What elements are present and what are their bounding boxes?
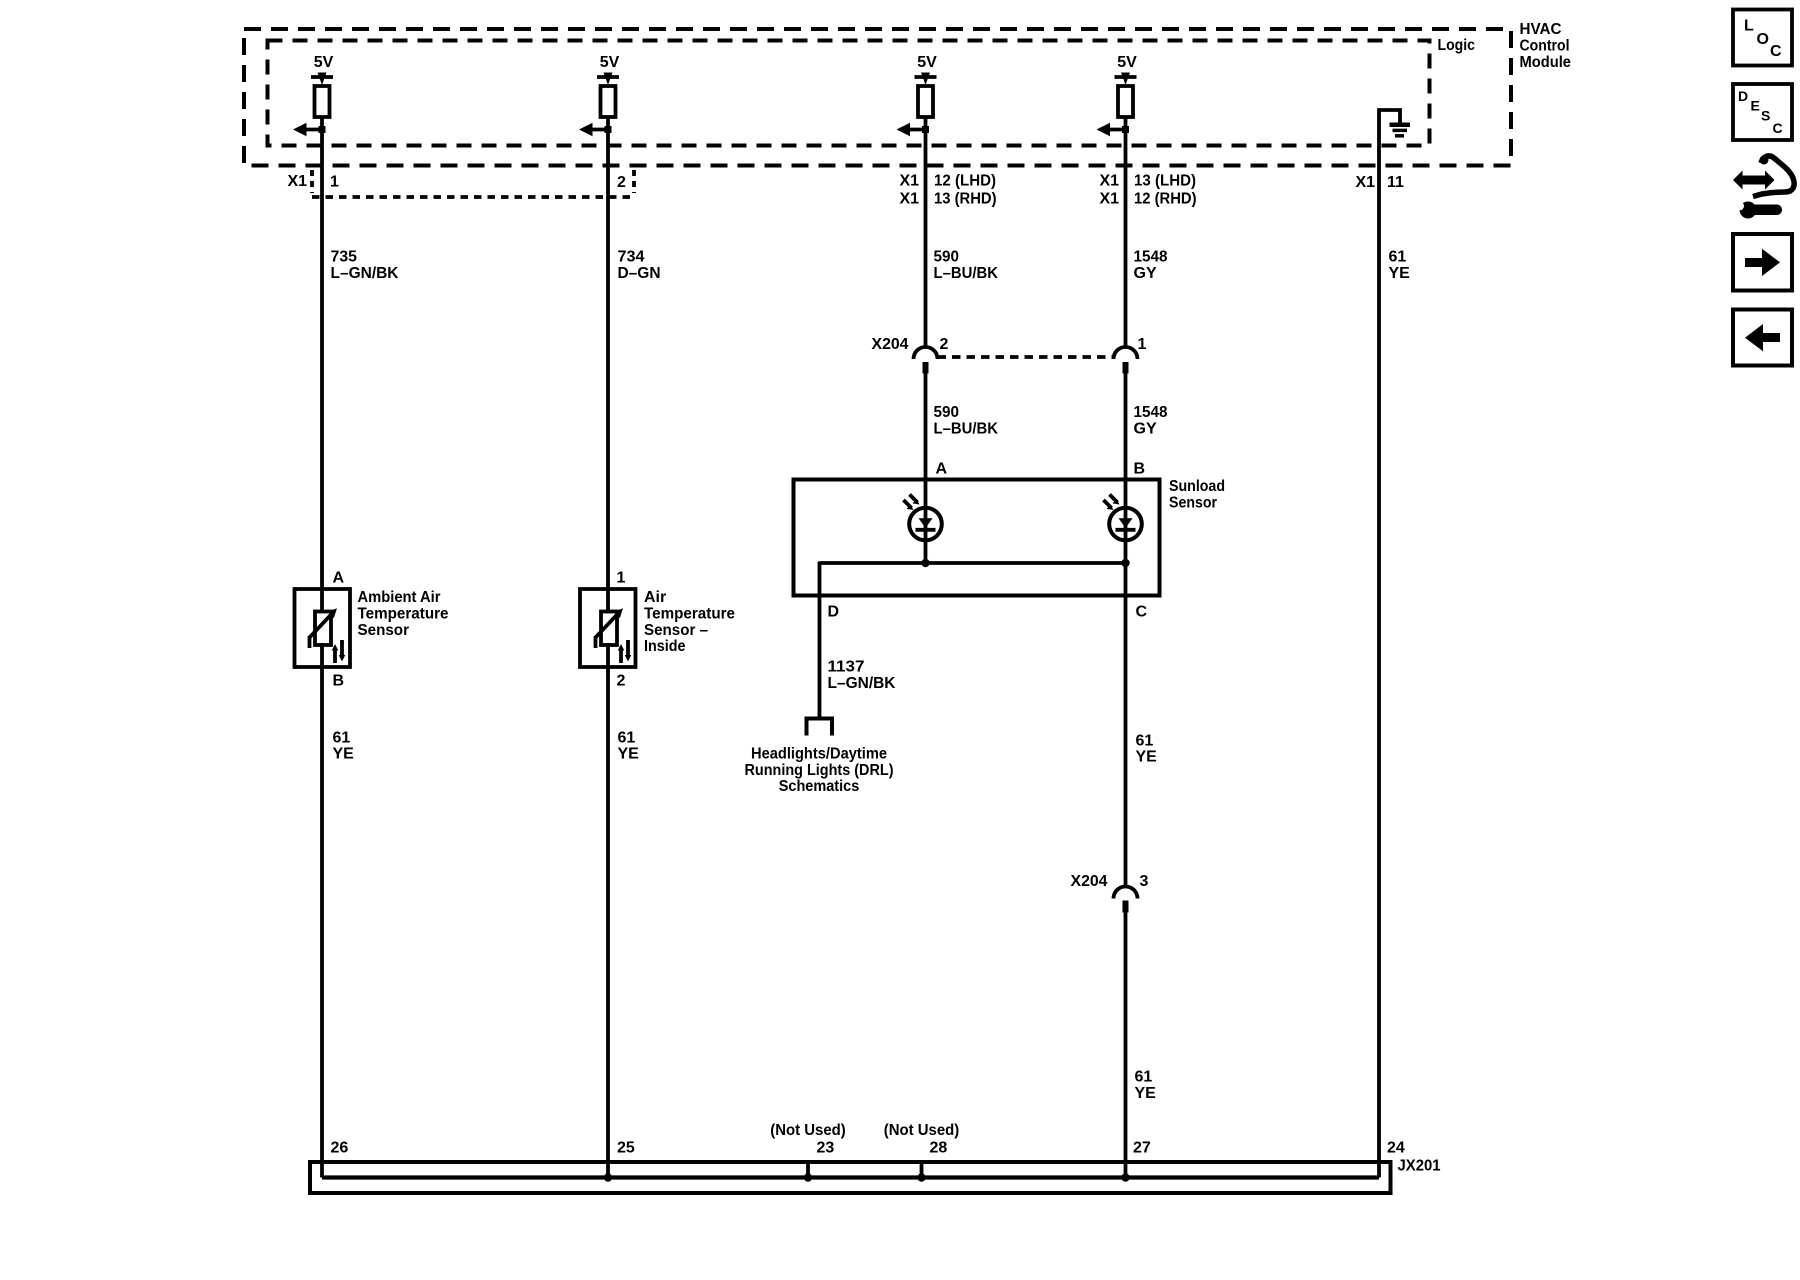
wire 1548 GY label (upper) bbox=[1134, 248, 1168, 282]
wire branch 2 to junction block bbox=[606, 643, 610, 1178]
svg-text:Control: Control bbox=[1520, 38, 1570, 55]
svg-text:L–BU/BK: L–BU/BK bbox=[934, 421, 999, 438]
wire branch 3 upper bbox=[924, 117, 928, 349]
svg-text:E: E bbox=[1751, 98, 1760, 114]
svg-text:23: 23 bbox=[817, 1140, 835, 1157]
svg-text:GY: GY bbox=[1134, 265, 1157, 282]
junction block JX201 outer box bbox=[310, 1162, 1391, 1193]
svg-text:61: 61 bbox=[1135, 1068, 1153, 1085]
svg-text:5V: 5V bbox=[1117, 54, 1137, 71]
signal arrow (branch 2) bbox=[579, 123, 612, 137]
svg-text:1137: 1137 bbox=[828, 659, 865, 676]
svg-text:YE: YE bbox=[1136, 749, 1158, 766]
svg-text:13 (RHD): 13 (RHD) bbox=[934, 191, 997, 208]
svg-text:12 (LHD): 12 (LHD) bbox=[934, 173, 996, 190]
svg-text:590: 590 bbox=[934, 404, 960, 421]
HVAC Control Module label bbox=[1520, 21, 1572, 71]
photodiode 1 (sunload A) bbox=[904, 495, 942, 541]
svg-text:C: C bbox=[1770, 43, 1782, 60]
icon LOC box bbox=[1733, 10, 1792, 66]
air temperature sensor inside label bbox=[644, 589, 735, 655]
svg-text:3: 3 bbox=[1140, 873, 1149, 890]
5V supply symbol (branch 1) bbox=[311, 73, 333, 86]
junction dot photodiode 1 bbox=[921, 559, 929, 567]
HVAC Control Module outer dashed box bbox=[244, 29, 1511, 166]
svg-text:61: 61 bbox=[333, 729, 351, 746]
wire branch 4 lower bbox=[1124, 371, 1128, 887]
wire 61 YE label (pin C) bbox=[1136, 732, 1158, 765]
resistor (branch 3) bbox=[918, 86, 933, 117]
svg-text:X1: X1 bbox=[1100, 191, 1120, 208]
stub pin 28 bbox=[920, 1162, 924, 1178]
ambient air temperature sensor box bbox=[295, 589, 351, 667]
svg-text:Sunload: Sunload bbox=[1169, 478, 1225, 495]
svg-text:L: L bbox=[1744, 18, 1754, 35]
junction dot photodiode 2 bbox=[1121, 559, 1129, 567]
svg-text:X204: X204 bbox=[872, 336, 909, 353]
resistor (branch 1) bbox=[315, 86, 330, 117]
icon DESC box bbox=[1733, 84, 1792, 140]
svg-text:12 (RHD): 12 (RHD) bbox=[1134, 191, 1197, 208]
wire 1548 GY label (lower) bbox=[1134, 404, 1168, 438]
svg-text:B: B bbox=[333, 673, 345, 690]
pin 23 not used label bbox=[770, 1122, 846, 1157]
wire branch 2 upper bbox=[606, 117, 610, 612]
5V supply symbol (branch 2) bbox=[597, 73, 619, 86]
wire 590 L-BU/BK label (upper) bbox=[934, 248, 999, 282]
svg-text:YE: YE bbox=[333, 746, 355, 763]
off-page connector to DRL schematics bbox=[805, 717, 835, 736]
ambient air temperature sensor label bbox=[358, 589, 449, 639]
svg-text:5V: 5V bbox=[600, 54, 620, 71]
svg-text:D: D bbox=[828, 604, 840, 621]
svg-text:X1: X1 bbox=[1100, 173, 1120, 190]
5V supply symbol (branch 3) bbox=[915, 73, 937, 86]
svg-text:O: O bbox=[1757, 31, 1769, 48]
svg-text:26: 26 bbox=[331, 1140, 349, 1157]
svg-text:Air: Air bbox=[644, 589, 666, 606]
svg-text:C: C bbox=[1136, 604, 1148, 621]
svg-text:YE: YE bbox=[1389, 265, 1411, 282]
svg-text:S: S bbox=[1761, 108, 1770, 124]
connector X1 pins 1-2 dotted box bbox=[312, 170, 634, 197]
photodiode 2 (sunload B) bbox=[1104, 495, 1142, 541]
wire branch 1 upper bbox=[320, 117, 324, 612]
connector X1 pin 1 label bbox=[288, 173, 340, 191]
wire 61 YE label (branch 2) bbox=[618, 729, 640, 762]
svg-text:2: 2 bbox=[617, 673, 626, 690]
icon back arrow box bbox=[1733, 310, 1792, 366]
svg-text:61: 61 bbox=[1136, 732, 1154, 749]
wire branch 3 lower bbox=[924, 371, 928, 563]
svg-text:1548: 1548 bbox=[1134, 404, 1168, 421]
svg-text:1548: 1548 bbox=[1134, 248, 1168, 265]
svg-text:YE: YE bbox=[618, 746, 640, 763]
icon forward arrow box bbox=[1733, 234, 1792, 291]
wire 61 YE label (branch 4 bottom) bbox=[1135, 1068, 1157, 1101]
resistor (branch 4) bbox=[1118, 86, 1133, 117]
wire 1137 (pin D) bbox=[818, 562, 822, 719]
svg-text:Sensor: Sensor bbox=[1169, 495, 1217, 512]
connector X204 pin 1 bbox=[1114, 347, 1138, 374]
connector X1 pin 13/12 labels (branch 4) bbox=[1100, 173, 1197, 208]
signal arrow (branch 4) bbox=[1097, 123, 1130, 137]
svg-text:Temperature: Temperature bbox=[358, 605, 449, 622]
svg-text:D: D bbox=[1738, 88, 1748, 104]
svg-text:A: A bbox=[333, 570, 345, 587]
svg-text:590: 590 bbox=[934, 248, 960, 265]
svg-text:2: 2 bbox=[617, 174, 626, 191]
pin 28 not used label bbox=[884, 1122, 960, 1157]
thermistor (inside sensor) bbox=[596, 608, 632, 663]
wire 734 D-GN label bbox=[618, 248, 661, 282]
wire 735 L-GN/BK label bbox=[331, 248, 399, 282]
thermistor (ambient sensor) bbox=[310, 608, 346, 663]
svg-text:A: A bbox=[936, 461, 948, 478]
svg-text:2: 2 bbox=[940, 336, 949, 353]
stub pin 23 bbox=[806, 1162, 810, 1178]
wire branch 1 to junction block bbox=[320, 643, 324, 1178]
svg-text:L–GN/BK: L–GN/BK bbox=[331, 265, 399, 282]
svg-text:28: 28 bbox=[930, 1140, 948, 1157]
svg-text:734: 734 bbox=[618, 248, 645, 265]
5V supply symbol (branch 4) bbox=[1115, 73, 1137, 86]
sunload sensor box bbox=[794, 480, 1160, 596]
wire 61 YE label (branch 1) bbox=[333, 729, 355, 762]
svg-text:5V: 5V bbox=[917, 54, 937, 71]
svg-text:24: 24 bbox=[1387, 1140, 1405, 1157]
svg-text:61: 61 bbox=[618, 729, 636, 746]
svg-text:JX201: JX201 bbox=[1398, 1158, 1441, 1175]
svg-text:L–GN/BK: L–GN/BK bbox=[828, 675, 896, 692]
svg-text:B: B bbox=[1134, 461, 1146, 478]
svg-text:Running Lights (DRL): Running Lights (DRL) bbox=[745, 762, 894, 779]
svg-text:Inside: Inside bbox=[644, 638, 686, 655]
resistor (branch 2) bbox=[601, 86, 616, 117]
connector X204 pin 3 label bbox=[1071, 873, 1149, 890]
svg-text:C: C bbox=[1773, 120, 1783, 136]
svg-text:Sensor –: Sensor – bbox=[644, 622, 708, 639]
wire 1137 L-GN/BK label bbox=[828, 659, 896, 693]
junction dot pin 28 bbox=[917, 1173, 925, 1181]
junction dot pin 27 bbox=[1121, 1173, 1129, 1181]
connector X1 pin 12/13 labels (branch 3) bbox=[900, 173, 997, 208]
svg-text:Module: Module bbox=[1520, 54, 1572, 71]
junction block bus wire bbox=[322, 1175, 1379, 1179]
svg-text:D–GN: D–GN bbox=[618, 265, 661, 282]
svg-text:27: 27 bbox=[1133, 1140, 1151, 1157]
svg-text:X1: X1 bbox=[288, 173, 308, 190]
sunload sensor label bbox=[1169, 478, 1225, 512]
junction dot pin 25 bbox=[604, 1173, 612, 1181]
connector X204 body dashed link bbox=[938, 355, 1114, 359]
svg-text:X204: X204 bbox=[1071, 873, 1108, 890]
wire 590 L-BU/BK label (lower) bbox=[934, 404, 999, 438]
air temperature sensor inside box bbox=[580, 589, 636, 667]
svg-text:X1: X1 bbox=[1356, 174, 1376, 191]
svg-text:735: 735 bbox=[331, 248, 358, 265]
svg-text:13 (LHD): 13 (LHD) bbox=[1134, 173, 1196, 190]
svg-text:25: 25 bbox=[617, 1140, 635, 1157]
svg-text:Logic: Logic bbox=[1438, 37, 1476, 54]
svg-text:(Not Used): (Not Used) bbox=[884, 1122, 960, 1139]
svg-text:Ambient Air: Ambient Air bbox=[358, 589, 441, 606]
junction dot pin 23 bbox=[804, 1173, 812, 1181]
wire 61 YE label (right branch) bbox=[1389, 248, 1411, 282]
svg-text:Sensor: Sensor bbox=[358, 622, 410, 639]
svg-text:5V: 5V bbox=[314, 54, 334, 71]
wire branch 4 upper bbox=[1124, 117, 1128, 349]
wire branch 4 to junction block bbox=[1124, 911, 1128, 1178]
svg-text:Temperature: Temperature bbox=[644, 605, 735, 622]
signal arrow (branch 1) bbox=[293, 123, 326, 137]
svg-text:11: 11 bbox=[1387, 174, 1404, 191]
connector X204 pin 2 bbox=[914, 347, 938, 374]
DRL schematics label bbox=[745, 745, 894, 795]
sunload internal common wire bbox=[820, 561, 1126, 565]
svg-text:X1: X1 bbox=[900, 191, 920, 208]
svg-text:GY: GY bbox=[1134, 421, 1157, 438]
svg-text:1: 1 bbox=[1138, 336, 1147, 353]
svg-text:1: 1 bbox=[330, 174, 339, 191]
svg-text:1: 1 bbox=[617, 570, 626, 587]
connector X1 pin 11 label bbox=[1356, 174, 1405, 191]
svg-text:61: 61 bbox=[1389, 248, 1407, 265]
svg-text:Schematics: Schematics bbox=[779, 778, 860, 795]
svg-text:Headlights/Daytime: Headlights/Daytime bbox=[751, 745, 887, 762]
svg-text:X1: X1 bbox=[900, 173, 920, 190]
svg-text:YE: YE bbox=[1135, 1085, 1157, 1102]
ground symbol inside module bbox=[1379, 110, 1410, 1178]
svg-text:HVAC: HVAC bbox=[1520, 21, 1562, 38]
connector X204 pin 3 bbox=[1114, 887, 1138, 913]
svg-text:(Not Used): (Not Used) bbox=[770, 1122, 846, 1139]
Logic inner dashed box bbox=[268, 41, 1430, 146]
signal arrow (branch 3) bbox=[897, 123, 930, 137]
svg-text:L–BU/BK: L–BU/BK bbox=[934, 265, 999, 282]
icon vehicle diagnostic (arrow, outline, wrench) bbox=[1733, 156, 1794, 219]
